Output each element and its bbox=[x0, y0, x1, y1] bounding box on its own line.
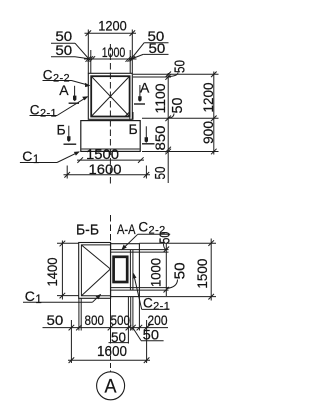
chain ticks left cluster bbox=[86, 56, 92, 62]
section mark B right: arrow line bbox=[145, 126, 147, 139]
plan view: diagonal 1 bbox=[92, 77, 129, 116]
dimension 1200 top: right extension bbox=[131, 30, 133, 74]
chain ticks right cluster bbox=[126, 56, 132, 62]
dimension 1500: left tick bbox=[77, 157, 83, 163]
underline row2 50 right bbox=[141, 340, 164, 342]
section B-B outer rect bbox=[79, 243, 111, 299]
label C2-2 underline and leader bbox=[43, 80, 72, 82]
outer vertical dim chain line bbox=[213, 72, 215, 155]
svg-text:900: 900 bbox=[201, 121, 217, 144]
svg-text:1500: 1500 bbox=[86, 146, 119, 162]
svg-text:850: 850 bbox=[153, 125, 169, 150]
dim 1400: line bbox=[61, 241, 63, 300]
svg-text:50: 50 bbox=[55, 43, 72, 58]
footing bottom extension line bbox=[142, 151, 219, 153]
dimension 1600: left ext bbox=[66, 166, 68, 179]
outer chain tick y118.3 bbox=[211, 116, 217, 122]
svg-text:Б-Б: Б-Б bbox=[76, 223, 99, 239]
square right edge ext down to footing bbox=[129, 112, 131, 120]
svg-text:1200: 1200 bbox=[201, 82, 217, 112]
dimension 1200 top: left tick bbox=[86, 30, 92, 36]
top 50 leader curve bbox=[169, 73, 178, 77]
svg-text:1000: 1000 bbox=[149, 258, 165, 287]
svg-text:1500: 1500 bbox=[195, 258, 211, 288]
dimension 1600: right ext bbox=[145, 166, 147, 179]
svg-text:С2-1: С2-1 bbox=[143, 296, 170, 313]
leader to right 50 text bbox=[133, 328, 141, 341]
bottom view centerline through section bbox=[110, 244, 112, 297]
svg-text:50: 50 bbox=[55, 29, 72, 44]
dimension 1500: right tick bbox=[138, 157, 144, 163]
mid 50 leader (bottom view) bbox=[167, 280, 178, 289]
bottom dims: vertical extensions bbox=[70, 320, 72, 363]
svg-text:500: 500 bbox=[111, 312, 131, 328]
dimension 1500: line bbox=[77, 159, 144, 161]
svg-text:50: 50 bbox=[153, 167, 169, 180]
leader to 200 text bbox=[147, 324, 151, 328]
outer chain tick y151.5 bbox=[211, 149, 217, 155]
svg-text:800: 800 bbox=[85, 312, 105, 328]
svg-text:1100: 1100 bbox=[153, 83, 169, 113]
svg-text:50: 50 bbox=[170, 98, 186, 114]
inner chain tick y74.3 bbox=[165, 72, 171, 78]
section mark A right: arrowhead bbox=[138, 96, 141, 102]
inner chain tick y151.5 bbox=[165, 149, 171, 155]
section mark B right: arrowhead bbox=[145, 137, 148, 143]
svg-text:1600: 1600 bbox=[89, 161, 122, 177]
svg-text:1400: 1400 bbox=[45, 257, 61, 286]
svg-text:Б: Б bbox=[57, 121, 66, 137]
section B-B inner lines bbox=[81, 245, 110, 296]
ext top to outer chain bbox=[139, 242, 216, 244]
mesh right double lines bbox=[129, 250, 131, 291]
centerline below to circle bbox=[110, 348, 112, 372]
svg-text:А: А bbox=[140, 79, 150, 95]
bottom view dashed centerline upper bbox=[110, 215, 112, 244]
label C2-1 underline and leader bbox=[30, 115, 58, 117]
section B-B diagonal upper bbox=[82, 245, 111, 269]
right side: lower extension line to inner chain bbox=[133, 76, 171, 78]
dim 1600 bottom: ticks bbox=[69, 357, 75, 363]
svg-text:50: 50 bbox=[111, 329, 126, 345]
bottom right: outer chain 1500 bbox=[210, 239, 212, 301]
column thick rect bbox=[114, 257, 128, 282]
axis circle A bbox=[97, 372, 125, 400]
bottom chain ticks bbox=[69, 325, 75, 331]
svg-text:С1: С1 bbox=[22, 148, 39, 166]
svg-text:50: 50 bbox=[157, 232, 173, 244]
dimension 1200 top: left extension bbox=[87, 30, 89, 74]
inner chain tick y118.3 bbox=[165, 116, 171, 122]
svg-text:А-А: А-А bbox=[117, 221, 136, 237]
svg-text:1200: 1200 bbox=[98, 18, 127, 33]
section mark A left: arrow line bbox=[74, 86, 76, 98]
svg-text:50: 50 bbox=[143, 326, 160, 342]
section mark A left: arrowhead bbox=[73, 96, 76, 102]
inner wall extension right above square bbox=[129, 50, 131, 73]
section mark A left: crossbar bbox=[69, 102, 79, 104]
outer chain tick y74.3 bbox=[211, 72, 217, 78]
section mark B left: arrowhead bbox=[67, 136, 70, 142]
dimension 1600: right tick bbox=[144, 172, 150, 178]
section mark A right: arrow line bbox=[139, 85, 141, 98]
section mark B right: crossbar bbox=[142, 143, 155, 145]
right side: upper extension line to outer chain bbox=[133, 73, 219, 75]
top 50 leader (bottom view) bbox=[164, 244, 167, 250]
mid 50 leader curve bbox=[169, 114, 174, 119]
left 50/50 leader lower bbox=[51, 56, 75, 58]
inner chain tick y149.5 bbox=[165, 147, 171, 153]
inner chain tick y77 bbox=[165, 74, 171, 80]
dimension 1600: line bbox=[64, 174, 151, 176]
plan view: footing rectangle bbox=[81, 121, 140, 152]
bottom right: inner chain 1000 bbox=[165, 244, 167, 297]
bottom chain dim line bbox=[43, 327, 169, 329]
svg-text:50: 50 bbox=[149, 41, 166, 56]
section mark B left: arrow line bbox=[68, 126, 70, 139]
svg-text:50: 50 bbox=[172, 262, 188, 279]
svg-text:А: А bbox=[59, 82, 69, 98]
dimension 1600: left tick bbox=[64, 172, 70, 178]
inner vertical dim chain line bbox=[167, 73, 169, 183]
section mark A right: crossbar bbox=[134, 103, 145, 105]
svg-text:1600: 1600 bbox=[97, 344, 127, 360]
mesh bottom double lines bbox=[111, 287, 169, 289]
dim 1400: ticks bbox=[60, 241, 66, 247]
label C1 bottom leader bbox=[23, 301, 93, 303]
plan view: diagonal 2 bbox=[92, 77, 129, 116]
footing top extension line bbox=[142, 117, 219, 119]
dimension 1200 top: line bbox=[85, 32, 137, 34]
inner wall extension left above square bbox=[90, 50, 92, 73]
label C1 top underline and leader bbox=[20, 162, 57, 164]
label C2-2 bottom underline leader bbox=[138, 233, 171, 235]
label C2-1 bottom underline leader bbox=[142, 308, 170, 310]
dim 1400: bottom ext bbox=[57, 295, 79, 297]
right 50/50 leader upper bbox=[144, 42, 168, 44]
svg-text:1000: 1000 bbox=[102, 45, 126, 60]
chain dim line 50/1000/50: line bbox=[84, 58, 137, 60]
plan view: footing inner bottom line bbox=[82, 148, 140, 150]
svg-text:А: А bbox=[105, 376, 117, 397]
left 50/50 leader upper bbox=[51, 42, 75, 44]
mesh C2-2 top double lines bbox=[111, 249, 169, 251]
underline row2 50 left bbox=[109, 342, 129, 344]
ext bottom to outer chain bbox=[139, 296, 216, 298]
dim 1400: top ext bbox=[57, 242, 79, 244]
plan view: column glass outer square bbox=[88, 73, 132, 119]
dimension 1200 top: right tick bbox=[130, 30, 136, 36]
svg-text:С1: С1 bbox=[25, 288, 42, 306]
svg-text:50: 50 bbox=[172, 60, 188, 73]
section B-B diagonal lower bbox=[82, 269, 111, 296]
svg-text:С2-1: С2-1 bbox=[30, 102, 57, 119]
svg-text:50: 50 bbox=[47, 312, 64, 328]
section A-A outer rect bbox=[111, 244, 140, 297]
dim 1600 bottom: line bbox=[68, 359, 150, 361]
right 50/50 leader lower bbox=[143, 53, 168, 55]
svg-text:Б: Б bbox=[129, 121, 138, 137]
plan view: column glass inner thick square bbox=[91, 76, 129, 116]
section mark B left: crossbar bbox=[64, 143, 77, 145]
plan view: vertical dashed centerline bbox=[109, 44, 111, 186]
